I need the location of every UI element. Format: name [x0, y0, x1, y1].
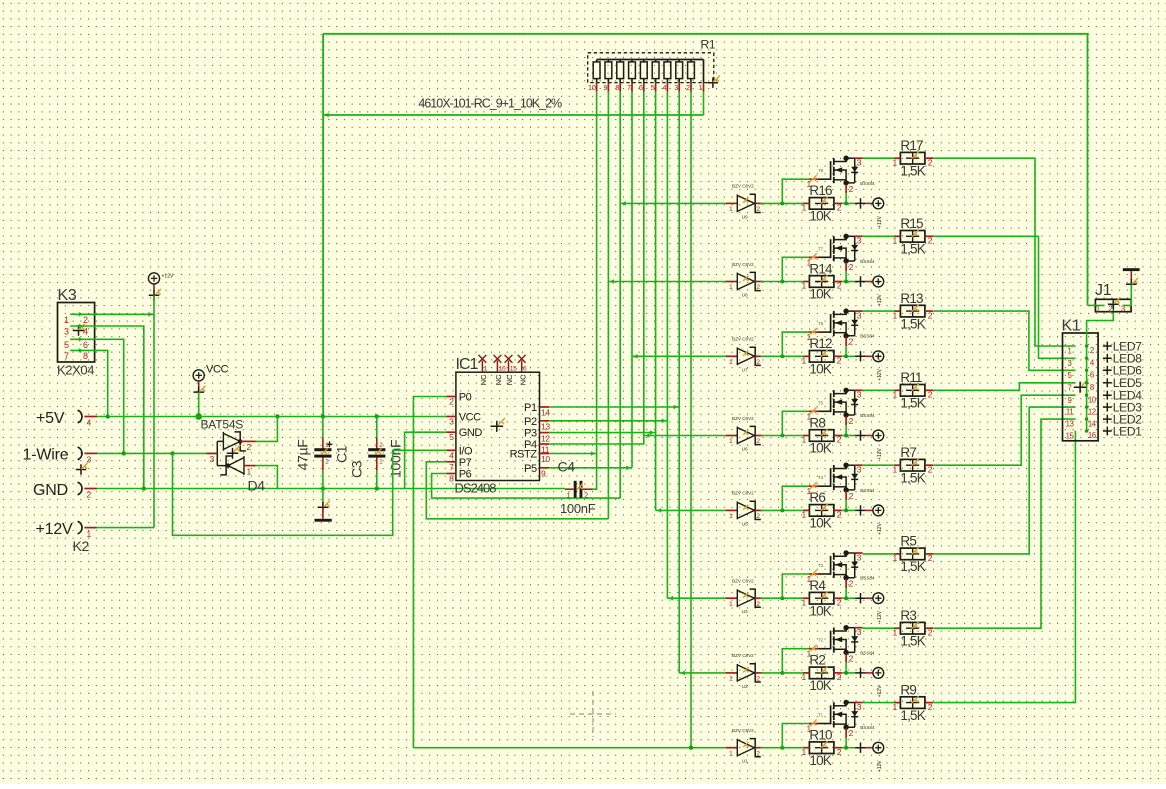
- svg-text:1: 1: [801, 356, 806, 366]
- IC1 left pins: [446, 392, 482, 484]
- diode U8 BZV C8V2: [726, 262, 763, 298]
- svg-text:GND: GND: [33, 482, 68, 499]
- wire T6 source down: [845, 346, 847, 356]
- wire +12V arc row: [97, 527, 155, 529]
- svg-text:BSS84: BSS84: [860, 181, 875, 186]
- svg-text:R3: R3: [900, 608, 916, 623]
- wire U5 to R6: [761, 509, 805, 511]
- junction +5V C1: [321, 414, 325, 418]
- svg-text:T1: T1: [818, 713, 824, 718]
- wire gate riser T3: [782, 574, 809, 598]
- resistor R6 10K: [801, 490, 842, 530]
- svg-text:T5: T5: [818, 400, 824, 405]
- svg-text:R7: R7: [900, 445, 916, 460]
- svg-text:R11: R11: [900, 370, 922, 385]
- wire K1 even-pin bus from J1 pin2: [1087, 304, 1114, 431]
- svg-text:R4: R4: [809, 578, 826, 593]
- svg-text:2: 2: [928, 157, 933, 167]
- svg-text:BZV C8V2: BZV C8V2: [732, 653, 754, 658]
- svg-text:2: 2: [756, 676, 760, 683]
- power +12V supply at U3: [855, 593, 883, 623]
- svg-text:BSS84: BSS84: [860, 488, 875, 493]
- svg-text:J1: J1: [1095, 282, 1112, 299]
- svg-text:P5: P5: [524, 463, 537, 475]
- svg-text:2: 2: [1090, 346, 1094, 355]
- svg-text:1: 1: [892, 236, 897, 246]
- wire +5V row: [97, 416, 446, 418]
- diode U6 BZV C8V2: [726, 416, 763, 452]
- wire K3 pin4 to GND: [70, 326, 144, 489]
- svg-text:7: 7: [1068, 383, 1072, 392]
- wire gate riser T4: [782, 486, 809, 510]
- wire U2 to R2: [761, 672, 805, 674]
- junction gate U9: [780, 201, 784, 205]
- svg-text:1: 1: [729, 750, 733, 757]
- svg-text:NC: NC: [479, 374, 488, 385]
- svg-text:+12V: +12V: [877, 294, 883, 306]
- power +12V supply at U9: [855, 198, 883, 228]
- svg-text:1: 1: [892, 627, 897, 637]
- capacitor C3 100nF: [349, 417, 404, 489]
- svg-text:10K: 10K: [809, 441, 831, 456]
- wire J1 pin1: [1088, 304, 1105, 306]
- svg-text:+12V: +12V: [877, 610, 883, 622]
- capacitor C1 47uF: [295, 417, 350, 489]
- svg-text:BSS84: BSS84: [860, 334, 875, 339]
- svg-text:RSTZ: RSTZ: [510, 449, 538, 461]
- svg-text:5: 5: [64, 340, 69, 350]
- svg-text:2: 2: [837, 747, 842, 757]
- svg-text:7: 7: [64, 351, 69, 361]
- svg-text:1: 1: [247, 467, 252, 477]
- svg-text:1: 1: [729, 676, 733, 683]
- wire gate riser T6: [782, 332, 809, 356]
- svg-text:IC1: IC1: [456, 356, 479, 373]
- transistor T1 BSS84: [810, 700, 875, 738]
- svg-text:2: 2: [584, 493, 588, 500]
- svg-text:2: 2: [83, 315, 88, 325]
- svg-text:1: 1: [729, 438, 733, 445]
- svg-text:T3: T3: [818, 563, 824, 568]
- wire K3 pin6 to 1-Wire: [70, 339, 124, 453]
- diode U9 BZV C8V2: [726, 184, 763, 220]
- svg-text:16: 16: [499, 366, 506, 373]
- resistor R11 1,5K: [892, 370, 933, 410]
- resistor R16 10K: [801, 183, 842, 223]
- svg-text:+12V: +12V: [877, 760, 883, 772]
- svg-text:10K: 10K: [809, 516, 831, 531]
- ground symbol at J1: [1123, 268, 1140, 289]
- wire T8 drain to R17: [863, 157, 895, 159]
- svg-text:2: 2: [849, 262, 854, 272]
- svg-text:+12V: +12V: [36, 521, 74, 538]
- wire gate riser T5: [782, 411, 809, 435]
- svg-text:+12V: +12V: [877, 215, 883, 227]
- wire U8 to R14: [761, 281, 805, 283]
- wire gate riser T7: [782, 257, 809, 281]
- wire T8 source down: [845, 193, 847, 203]
- wire T4 source down: [845, 500, 847, 510]
- svg-text:BZV C8V2: BZV C8V2: [732, 184, 754, 189]
- transistor T6 BSS84: [810, 308, 875, 346]
- node channel U8 row: [608, 281, 725, 283]
- svg-text:3: 3: [857, 236, 862, 246]
- K1 pin numbers: [1066, 346, 1097, 440]
- svg-text:R5: R5: [900, 534, 916, 549]
- wire gate riser T2: [782, 649, 809, 673]
- svg-text:2: 2: [928, 390, 933, 400]
- node channel U5 row: [656, 509, 726, 511]
- wire R12 to +12V: [842, 355, 855, 357]
- wire C4 to RSTZ: [593, 454, 597, 490]
- svg-text:T7: T7: [818, 246, 824, 251]
- svg-text:10: 10: [588, 83, 596, 92]
- svg-text:BZV C8V2: BZV C8V2: [732, 337, 754, 342]
- node LED1: [1103, 424, 1142, 438]
- svg-text:1: 1: [801, 281, 806, 291]
- svg-text:BZV C8V2: BZV C8V2: [732, 416, 754, 421]
- svg-text:10K: 10K: [809, 753, 831, 768]
- svg-text:7: 7: [627, 83, 631, 92]
- svg-text:3: 3: [857, 465, 862, 475]
- svg-text:1,5K: 1,5K: [900, 708, 925, 723]
- power +12V supply at U7: [855, 351, 883, 381]
- svg-text:100nF: 100nF: [388, 440, 404, 478]
- node channel U6 row: [644, 435, 726, 437]
- wire R13 to K1: [933, 311, 1075, 370]
- svg-text:R12: R12: [809, 336, 832, 351]
- node channel U7 row: [632, 355, 726, 357]
- wire gate riser T8: [782, 179, 809, 203]
- resistor R13 1,5K: [892, 291, 933, 331]
- transistor T2 BSS84: [810, 625, 875, 663]
- svg-text:3: 3: [1068, 359, 1072, 368]
- svg-text:3: 3: [857, 627, 862, 637]
- svg-text:12: 12: [1088, 407, 1096, 416]
- svg-text:R15: R15: [900, 216, 923, 231]
- svg-text:14: 14: [541, 408, 550, 418]
- junction gate U5: [780, 508, 784, 512]
- svg-text:2: 2: [849, 491, 854, 501]
- svg-text:2: 2: [756, 750, 760, 757]
- svg-text:2: 2: [928, 627, 933, 637]
- svg-text:BSS84: BSS84: [860, 413, 875, 418]
- wire R7 to K1: [933, 395, 1075, 465]
- wire D4 pin2 to +5V: [256, 417, 278, 442]
- svg-text:R9: R9: [900, 682, 916, 697]
- svg-text:VCC: VCC: [459, 412, 481, 424]
- K2 origin cross and label: [73, 463, 90, 554]
- node LED5: [1103, 376, 1142, 390]
- connector K1: [1062, 318, 1099, 441]
- svg-text:BZV C8V2: BZV C8V2: [732, 728, 754, 733]
- svg-text:2: 2: [837, 203, 842, 213]
- svg-text:1: 1: [801, 597, 806, 607]
- wire T6 drain to R13: [863, 310, 895, 312]
- junction source T1: [844, 746, 848, 750]
- svg-text:2: 2: [756, 206, 760, 213]
- wire T5 drain to R11: [863, 389, 895, 391]
- wire R8 to +12V: [842, 435, 855, 437]
- svg-text:BZV C8V2: BZV C8V2: [732, 579, 754, 584]
- wire U1 to R10: [761, 747, 805, 749]
- svg-text:1: 1: [729, 359, 733, 366]
- junction gate U8: [780, 280, 784, 284]
- wire +5V left drop: [322, 34, 324, 417]
- svg-text:P2: P2: [524, 416, 537, 428]
- svg-text:2: 2: [928, 310, 933, 320]
- svg-text:1: 1: [1068, 347, 1072, 356]
- svg-text:2: 2: [1108, 304, 1112, 313]
- wire 1-Wire row: [97, 452, 217, 454]
- resistor R17 1,5K: [892, 138, 933, 178]
- wire R17 to K1: [933, 158, 1075, 346]
- svg-text:6: 6: [83, 340, 88, 350]
- resistor R4 10K: [801, 578, 842, 618]
- junction gate U3: [780, 596, 784, 600]
- junction +5V D4: [275, 414, 279, 418]
- wire +12V vertical: [153, 295, 155, 527]
- wire T2 drain to R3: [863, 627, 895, 629]
- resistor R8 10K: [801, 415, 842, 455]
- svg-text:2: 2: [837, 356, 842, 366]
- wire J1 pin3 to ground: [1123, 284, 1132, 305]
- svg-text:8: 8: [449, 474, 454, 484]
- svg-text:4: 4: [449, 450, 454, 460]
- R1 pin stubs and numbers: [588, 83, 704, 92]
- junction source T5: [844, 434, 848, 438]
- svg-text:NC: NC: [518, 374, 527, 385]
- wire P1 row: [549, 406, 679, 408]
- junction GND C3: [375, 486, 379, 490]
- wire R1 pin10 vertical (RSTZ pullup): [596, 92, 598, 454]
- svg-text:3: 3: [857, 158, 862, 168]
- svg-text:1: 1: [892, 553, 897, 563]
- wire 1-Wire to I/O: [173, 450, 447, 535]
- power +12V supply at U5: [855, 505, 883, 535]
- wire R1 pin9 vertical (P7 pullup): [607, 92, 609, 519]
- svg-text:2: 2: [756, 359, 760, 366]
- transistor T4 BSS84: [810, 463, 875, 501]
- svg-text:U7: U7: [742, 367, 748, 372]
- wire R10 to +12V: [842, 747, 855, 749]
- svg-text:9: 9: [603, 83, 607, 92]
- svg-text:R6: R6: [809, 490, 825, 505]
- node LED6: [1103, 364, 1142, 378]
- svg-text:+12V: +12V: [877, 522, 883, 534]
- svg-text:2: 2: [928, 464, 933, 474]
- svg-text:2: 2: [928, 236, 933, 246]
- svg-text:1: 1: [801, 747, 806, 757]
- resistor R12 10K: [801, 336, 842, 376]
- svg-text:3: 3: [674, 83, 678, 92]
- wire P0 net: [413, 397, 446, 748]
- wire R16 to +12V: [842, 202, 855, 204]
- svg-text:2: 2: [837, 510, 842, 520]
- wire R5 to K1: [933, 407, 1075, 554]
- svg-text:1: 1: [801, 510, 806, 520]
- junction VCC: [195, 413, 202, 420]
- svg-text:8: 8: [615, 83, 619, 92]
- wire T5 source down: [845, 425, 847, 435]
- svg-text:BSS84: BSS84: [860, 650, 875, 655]
- wire R9 to K1: [933, 431, 1075, 703]
- svg-text:C3: C3: [349, 460, 365, 478]
- svg-text:BZV C8V2: BZV C8V2: [732, 262, 754, 267]
- wire U6 to R8: [761, 435, 805, 437]
- connector K2 pin 3 (1-Wire): [23, 447, 98, 465]
- svg-text:BZV C8V2: BZV C8V2: [732, 491, 754, 496]
- svg-text:2: 2: [837, 672, 842, 682]
- svg-text:1: 1: [892, 464, 897, 474]
- resistor R3 1,5K: [892, 608, 933, 648]
- svg-text:R10: R10: [809, 728, 832, 743]
- svg-text:2: 2: [849, 416, 854, 426]
- svg-text:1: 1: [729, 284, 733, 291]
- junction source T7: [844, 280, 848, 284]
- svg-text:2: 2: [928, 702, 933, 712]
- svg-text:8: 8: [83, 351, 88, 361]
- connector J1: [1095, 282, 1131, 313]
- node LED2: [1103, 413, 1142, 427]
- node channel U1 row: [413, 747, 725, 749]
- IC1 right pins: [510, 402, 551, 479]
- wire R1 pin7 vertical (P5 pullup): [631, 92, 633, 468]
- svg-text:4: 4: [87, 418, 92, 428]
- diode U3 BZV C8V2: [726, 579, 763, 615]
- diode D4 BAT54S: [201, 418, 266, 494]
- svg-text:1-Wire: 1-Wire: [23, 447, 69, 464]
- svg-text:5: 5: [449, 432, 454, 442]
- svg-text:2: 2: [837, 435, 842, 445]
- svg-text:9: 9: [541, 469, 546, 479]
- svg-text:NC: NC: [494, 374, 503, 385]
- svg-text:2: 2: [87, 490, 92, 500]
- svg-text:K2: K2: [73, 538, 90, 554]
- power +12V supply at U6: [855, 430, 883, 460]
- svg-text:3: 3: [857, 390, 862, 400]
- svg-text:1,5K: 1,5K: [900, 396, 925, 411]
- svg-text:U1: U1: [742, 759, 748, 764]
- resistor R9 1,5K: [892, 682, 933, 722]
- wire GND row: [97, 488, 565, 490]
- svg-text:1: 1: [892, 157, 897, 167]
- IC1 NC pins: [479, 355, 528, 385]
- junction gate U7: [780, 354, 784, 358]
- svg-text:+12V: +12V: [877, 685, 883, 697]
- wire P2 row: [549, 420, 667, 422]
- svg-text:1: 1: [729, 601, 733, 608]
- svg-text:2: 2: [849, 728, 854, 738]
- svg-text:1: 1: [801, 203, 806, 213]
- svg-text:T6: T6: [818, 321, 824, 326]
- wire +5V top rail: [323, 34, 1087, 306]
- svg-text:K3: K3: [58, 287, 77, 304]
- junction gate U1: [780, 746, 784, 750]
- wire T4 drain to R7: [863, 464, 895, 466]
- resistor R15 1,5K: [892, 216, 933, 256]
- svg-text:2: 2: [928, 553, 933, 563]
- svg-text:1,5K: 1,5K: [900, 633, 925, 648]
- svg-text:BAT54S: BAT54S: [201, 418, 244, 432]
- svg-text:I/O: I/O: [459, 445, 473, 457]
- junction source T2: [844, 671, 848, 675]
- svg-text:U3: U3: [742, 609, 748, 614]
- svg-text:14: 14: [1088, 419, 1097, 428]
- svg-text:1: 1: [892, 702, 897, 712]
- wire IC GND to GND row: [405, 432, 447, 488]
- svg-text:R17: R17: [900, 138, 923, 153]
- svg-text:6: 6: [639, 83, 643, 92]
- junction GND K3: [142, 486, 146, 490]
- junction P0/R1 pin2: [689, 746, 693, 750]
- svg-text:D4: D4: [248, 478, 266, 494]
- svg-text:4: 4: [662, 83, 666, 92]
- svg-text:12: 12: [541, 433, 550, 443]
- svg-text:1,5K: 1,5K: [900, 163, 925, 178]
- svg-text:1,5K: 1,5K: [900, 242, 925, 257]
- junction +5V C3: [375, 414, 379, 418]
- svg-text:BSS84: BSS84: [860, 576, 875, 581]
- svg-text:R1: R1: [701, 38, 716, 52]
- junction gate U2: [780, 671, 784, 675]
- resistor R14 10K: [801, 261, 842, 301]
- svg-text:U5: U5: [742, 521, 748, 526]
- transistor T7 BSS84: [810, 234, 875, 272]
- wire R1 pin5 vertical (P3 pullup): [655, 92, 657, 511]
- resistor network R1: [588, 38, 720, 88]
- junction source T6: [844, 354, 848, 358]
- svg-text:T8: T8: [818, 168, 824, 173]
- wire T3 drain to R5: [863, 553, 895, 555]
- wire P6 net: [432, 474, 621, 499]
- svg-text:1,5K: 1,5K: [900, 316, 925, 331]
- svg-text:8: 8: [1090, 383, 1094, 392]
- svg-text:U8: U8: [742, 293, 748, 298]
- svg-text:T2: T2: [818, 638, 824, 643]
- svg-text:2: 2: [756, 284, 760, 291]
- power +12V supply at U8: [855, 276, 883, 306]
- wire R14 to +12V: [842, 281, 855, 283]
- svg-text:13: 13: [541, 422, 550, 432]
- svg-text:+12V: +12V: [877, 368, 883, 380]
- node LED7: [1103, 339, 1142, 353]
- resistor R7 1,5K: [892, 445, 933, 485]
- wire K3 pin8 to +5V: [70, 350, 108, 416]
- wire R1 pin8 vertical (P6 pullup): [619, 92, 621, 498]
- svg-text:U2: U2: [742, 684, 748, 689]
- wire P7 net: [426, 462, 608, 519]
- svg-text:10K: 10K: [809, 603, 831, 618]
- svg-text:C4: C4: [558, 459, 576, 475]
- svg-text:2: 2: [849, 653, 854, 663]
- svg-text:7: 7: [449, 462, 454, 472]
- connector K2 pin 4 (+5V): [36, 410, 97, 428]
- wire R1 pin2 vertical (P0 pullup): [690, 92, 692, 748]
- junction source T4: [844, 508, 848, 512]
- svg-text:15: 15: [510, 366, 517, 373]
- svg-text:R8: R8: [809, 415, 825, 430]
- svg-text:13: 13: [1066, 420, 1074, 429]
- junction source T8: [844, 201, 848, 205]
- diode U5 BZV C8V2: [726, 491, 763, 527]
- junction GND C1: [321, 486, 325, 490]
- wire P3 row: [549, 432, 655, 434]
- svg-text:P3: P3: [524, 428, 537, 440]
- wire VCC supply to +5V row: [198, 392, 200, 416]
- wire R15 to K1: [933, 236, 1075, 358]
- junction 1-Wire branch: [170, 451, 174, 455]
